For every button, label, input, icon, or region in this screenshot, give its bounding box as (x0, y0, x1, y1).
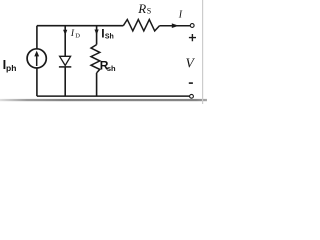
svg-text:I: I (70, 29, 75, 39)
svg-text:R: R (137, 1, 146, 16)
page shadow rule (bottom grey band) (0, 99, 207, 101)
page border (right grey line) (202, 0, 204, 104)
current arrow ID (63, 30, 67, 36)
current arrow Ish (95, 30, 99, 36)
terminal - (bottom right) (190, 94, 194, 98)
wire diode branch upper (64, 26, 66, 57)
svg-text:ph: ph (6, 63, 16, 73)
svg-text:S: S (147, 7, 151, 16)
current source Iph (27, 49, 46, 68)
wire left branch lower (36, 68, 38, 96)
diode D (60, 56, 71, 65)
wire bottom rail (37, 95, 190, 97)
terminal + (top right) (190, 24, 194, 28)
wire left branch upper (36, 26, 38, 49)
svg-text:sh: sh (107, 64, 116, 73)
wire shunt branch upper (96, 26, 98, 45)
wire shunt branch lower (96, 73, 98, 96)
svg-text:Sh: Sh (105, 33, 114, 40)
wire top rail left section (37, 25, 123, 27)
wire diode branch lower (64, 67, 66, 96)
svg-text:V: V (186, 56, 196, 71)
plus sign (189, 34, 196, 41)
resistor Rsh (91, 45, 100, 73)
resistor Rs (series, horizontal) (123, 20, 159, 31)
minus sign (189, 82, 193, 84)
current arrow I (output) (172, 23, 179, 28)
wire top rail right section (160, 25, 191, 27)
svg-text:I: I (178, 10, 183, 21)
svg-text:D: D (75, 32, 80, 39)
